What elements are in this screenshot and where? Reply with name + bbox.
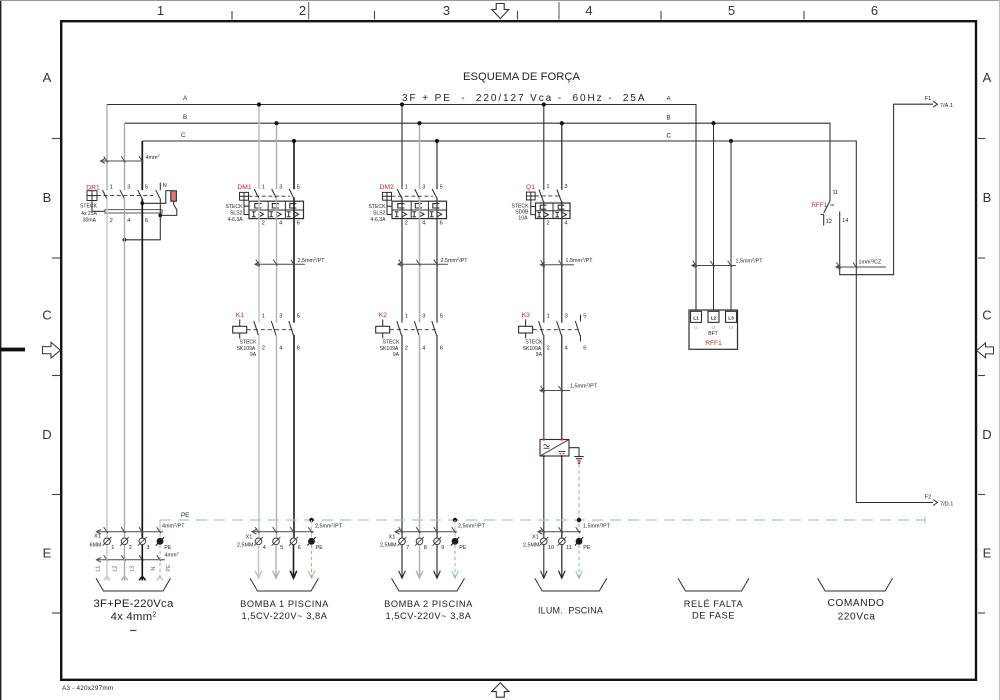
K2 main contact 5-6 bbox=[432, 321, 437, 335]
cable size label 1,5mm<tspan font-size="3.8" dy="-1.8">2</tspan><tspan dy="1.8">/PT</tspan> bbox=[541, 264, 575, 266]
svg-text:6: 6 bbox=[297, 220, 300, 226]
wire DM2 to K2 L1 bbox=[401, 198, 403, 323]
page edge marks bbox=[0, 0, 2, 700]
DM1 trip unit box bbox=[249, 201, 304, 218]
svg-text:10: 10 bbox=[548, 545, 554, 551]
svg-text:SD0B: SD0B bbox=[515, 210, 529, 216]
DM1 thermal element symbol bbox=[255, 204, 262, 208]
svg-text:SK109A: SK109A bbox=[523, 346, 542, 352]
row tick marks right bbox=[978, 138, 985, 140]
lighting transformer T1 bbox=[540, 439, 584, 465]
svg-text:6: 6 bbox=[583, 346, 586, 352]
Q1 pole contact 3-4 bbox=[557, 190, 562, 202]
svg-text:3: 3 bbox=[127, 185, 130, 191]
K2 main contact 3-4 bbox=[414, 321, 419, 335]
wire bus C tap to RFF1 L3 bbox=[730, 141, 732, 310]
svg-text:Q1: Q1 bbox=[526, 184, 535, 191]
svg-text:5: 5 bbox=[440, 313, 443, 319]
wire PE from ground to X1 bbox=[578, 464, 580, 538]
svg-text:L2: L2 bbox=[711, 315, 717, 321]
T1 earth branch wire bbox=[569, 448, 579, 457]
DM1 operator box bbox=[240, 192, 249, 200]
svg-text:X1: X1 bbox=[246, 535, 253, 541]
svg-text:4x 4mm2: 4x 4mm2 bbox=[111, 611, 157, 623]
DM2 magnetic element symbol I> bbox=[412, 211, 416, 213]
svg-text:2: 2 bbox=[547, 346, 550, 352]
wire K1 to X1 L3 bbox=[293, 335, 295, 538]
DM1 magnetic element symbol I> bbox=[252, 211, 256, 213]
svg-text:K3: K3 bbox=[522, 312, 531, 319]
svg-text:L1: L1 bbox=[96, 566, 102, 572]
DM2 operator box bbox=[383, 192, 392, 200]
svg-text:2: 2 bbox=[546, 221, 549, 227]
svg-text:1: 1 bbox=[262, 313, 265, 319]
centre fold arrow left bbox=[43, 342, 61, 358]
svg-text:RELÉ FALTA: RELÉ FALTA bbox=[684, 599, 744, 609]
svg-text:PE: PE bbox=[166, 564, 172, 571]
svg-text:PE: PE bbox=[181, 512, 189, 519]
DM2 operator bracket bbox=[387, 200, 392, 206]
svg-text:30mA: 30mA bbox=[83, 218, 97, 224]
PE protective earth bus dashed green bbox=[160, 519, 925, 521]
svg-text:10A: 10A bbox=[518, 216, 528, 222]
contact terminal 14 wire bbox=[840, 104, 933, 275]
feeder cable bracket bbox=[96, 578, 171, 591]
svg-text:12: 12 bbox=[826, 219, 832, 225]
junction dots bus A bbox=[257, 102, 261, 106]
terminal X1:6 bbox=[290, 538, 297, 545]
cable size label 2,5mm<tspan font-size="3.8" dy="-1.8">2</tspan><tspan dy="1.8">/PT</tspan> bbox=[398, 263, 448, 265]
svg-text:3: 3 bbox=[422, 313, 425, 319]
wire K2 to X1 L1 bbox=[401, 335, 403, 538]
svg-text:1,5mm2/PT: 1,5mm2/PT bbox=[736, 258, 764, 265]
K1 coil bbox=[239, 320, 241, 327]
wire bus B drop to DM2 bbox=[419, 123, 421, 189]
terminal X1:5 bbox=[273, 538, 280, 545]
junction dots bus C bbox=[292, 139, 296, 143]
K1 main contact 3-4 bbox=[271, 321, 276, 335]
wire DM1 to K1 L2 bbox=[276, 198, 278, 323]
PE drop to bomba 2 X1 bbox=[453, 518, 457, 522]
contact blade bbox=[824, 201, 830, 213]
centre fold arrow right bbox=[977, 343, 994, 358]
svg-text:SLS2: SLS2 bbox=[230, 210, 243, 216]
bomba 1 cable bracket bbox=[250, 578, 319, 591]
wire DM2 to K2 L3 bbox=[436, 198, 438, 323]
K1 main contact 1-2 bbox=[254, 321, 259, 335]
K3 main contact 1-2 bbox=[539, 321, 544, 335]
svg-text:N: N bbox=[163, 183, 167, 189]
DM2 magnetic element symbol I> bbox=[430, 211, 434, 213]
DM1 thermal element symbol bbox=[290, 204, 297, 208]
cable size label 1mm<tspan font-size="3.8" dy="-1.8">2</tspan><tspan dy="1.8">/CZ</tspan> bbox=[836, 266, 886, 268]
svg-text:D: D bbox=[982, 427, 991, 442]
wire transformer to X1 11 bbox=[561, 456, 563, 538]
T1 red terminal marks bbox=[543, 439, 545, 441]
wire bus C drop to DM2 bbox=[436, 141, 438, 189]
DM2 pole contact 5-6 bbox=[432, 189, 437, 198]
svg-text:PE: PE bbox=[583, 545, 591, 551]
arrow F2 to 7/D.1 bbox=[933, 500, 938, 506]
bus B drop to DR1 pole 3 bbox=[124, 123, 126, 190]
wire Q1 to K3 phase A bbox=[543, 202, 545, 323]
RFF1 terminal L2 bbox=[708, 311, 719, 322]
iluminacao cable bracket bbox=[535, 578, 607, 591]
svg-text:7/A.1: 7/A.1 bbox=[940, 103, 953, 109]
bus C wire bbox=[142, 141, 933, 503]
terminal X1:8 bbox=[416, 538, 423, 545]
cable size label 1,5mm<tspan font-size="3.8" dy="-1.8">2</tspan><tspan dy="1.8">/PT</tspan> bbox=[692, 265, 736, 267]
centre mark bar left bbox=[0, 348, 25, 352]
svg-text:9A: 9A bbox=[393, 352, 400, 358]
svg-text:4: 4 bbox=[585, 3, 592, 18]
centre fold arrow bottom bbox=[492, 683, 509, 697]
wire bus A drop to DM2 bbox=[401, 105, 403, 190]
svg-text:ILUM. PSCINA: ILUM. PSCINA bbox=[538, 606, 603, 616]
svg-text:6: 6 bbox=[871, 3, 878, 18]
svg-text:4x 25A: 4x 25A bbox=[81, 211, 97, 217]
contact terminal 12 bbox=[823, 215, 825, 226]
bus A wire bbox=[107, 105, 696, 311]
DM1 dashed linkage bbox=[249, 195, 291, 197]
svg-text:3: 3 bbox=[564, 184, 567, 190]
svg-text:9A: 9A bbox=[536, 352, 543, 358]
svg-text:BOMBA 2 PISCINA: BOMBA 2 PISCINA bbox=[384, 599, 473, 609]
arrow F1 to 7/A.1 bbox=[933, 101, 938, 107]
svg-text:2: 2 bbox=[262, 346, 265, 352]
svg-text:B: B bbox=[183, 114, 187, 121]
svg-text:A3 - 420x297mm: A3 - 420x297mm bbox=[62, 685, 113, 692]
DM2 magnetic element symbol I> bbox=[395, 211, 399, 213]
svg-text:SLS2: SLS2 bbox=[373, 210, 386, 216]
Q1 magnetic element symbol I> bbox=[555, 211, 559, 213]
T1 DC symbol bbox=[559, 451, 566, 453]
svg-text:1: 1 bbox=[547, 313, 550, 319]
K1 main contact 5-6 bbox=[289, 321, 294, 335]
svg-text:X1: X1 bbox=[94, 534, 101, 540]
DM2 pole contact 1-2 bbox=[397, 189, 402, 198]
svg-text:2: 2 bbox=[110, 218, 113, 224]
svg-text:4-6,3A: 4-6,3A bbox=[227, 217, 243, 223]
Q1 operator bracket bbox=[531, 200, 536, 207]
contactor K2 bbox=[376, 312, 443, 358]
svg-text:3F+PE-220Vca: 3F+PE-220Vca bbox=[94, 598, 174, 610]
svg-text:BFT: BFT bbox=[708, 331, 717, 337]
svg-text:STECK: STECK bbox=[512, 203, 530, 209]
svg-text:2: 2 bbox=[405, 220, 408, 226]
svg-text:5: 5 bbox=[728, 3, 735, 18]
wire DM1 to K1 L3 bbox=[293, 198, 295, 323]
DM2 pole contact 3-4 bbox=[415, 189, 420, 198]
DM1 magnetic element symbol I> bbox=[287, 211, 291, 213]
svg-text:5: 5 bbox=[297, 185, 300, 191]
wire Q1 to K3 phase B bbox=[561, 202, 563, 323]
K3 spare contact 5-6 bbox=[580, 315, 582, 322]
terminal X1:11 bbox=[559, 538, 566, 545]
svg-text:C: C bbox=[42, 308, 51, 323]
svg-text:2: 2 bbox=[405, 346, 408, 352]
svg-text:1: 1 bbox=[262, 185, 265, 191]
circuit breaker Q1 bbox=[512, 184, 570, 227]
svg-text:C: C bbox=[982, 308, 991, 323]
svg-text:2: 2 bbox=[262, 220, 265, 226]
cable size label 2,5mm<tspan font-size="3.8" dy="-1.8">2</tspan><tspan dy="1.8">/PT</tspan> bbox=[255, 263, 305, 265]
svg-text:2,5mm2/PT: 2,5mm2/PT bbox=[441, 257, 469, 264]
svg-text:5: 5 bbox=[297, 313, 300, 319]
bomba 1 cable conductors with arrows bbox=[258, 545, 260, 578]
svg-text:2,5mm2/PT: 2,5mm2/PT bbox=[315, 523, 343, 530]
svg-text:2,5MM: 2,5MM bbox=[237, 543, 254, 549]
svg-text:L3: L3 bbox=[729, 326, 733, 330]
svg-text:L3: L3 bbox=[728, 315, 734, 321]
svg-text:1: 1 bbox=[110, 185, 113, 191]
cable size label 4mm<tspan font-size="3.8" dy="-1.8">2</tspan><tspan dy="1.8">/PT</tspan> bbox=[97, 531, 164, 533]
svg-text:11: 11 bbox=[566, 545, 572, 551]
DR1 test circuit tap bbox=[140, 201, 144, 205]
svg-text:F1: F1 bbox=[925, 96, 932, 102]
wire K2 to X1 L3 bbox=[436, 335, 438, 538]
phase failure relay RFF1 bbox=[689, 310, 738, 349]
svg-text:DM2: DM2 bbox=[380, 184, 395, 191]
terminal X1:4 bbox=[255, 538, 262, 545]
comando bracket bbox=[818, 578, 893, 591]
wire bus B drop to DM1 bbox=[276, 123, 278, 189]
svg-text:B: B bbox=[43, 190, 52, 205]
RFF1 auxiliary changeover contact bbox=[811, 104, 933, 275]
svg-text:DE FASE: DE FASE bbox=[692, 611, 735, 621]
rele falta de fase bracket bbox=[678, 578, 749, 591]
PE drop to bomba 1 X1 bbox=[309, 518, 313, 522]
terminal X1:PE bbox=[308, 538, 315, 545]
wire K2 to X1 L2 bbox=[419, 335, 421, 538]
feeder cable conductors with arrows bbox=[106, 545, 108, 581]
svg-text:4mm2/PT: 4mm2/PT bbox=[162, 523, 185, 530]
cable size label 2,5mm<tspan font-size="3.8" dy="-1.8">2</tspan><tspan dy="1.8">/PT</tspan> bbox=[395, 531, 457, 533]
cable size label 1,5mm<tspan font-size="3.8" dy="-1.8">2</tspan><tspan dy="1.8">/PT</tspan> bbox=[540, 390, 570, 392]
svg-text:1: 1 bbox=[111, 545, 114, 551]
svg-text:5: 5 bbox=[583, 313, 586, 319]
bus C drop to DR1 pole 5 bbox=[141, 141, 143, 190]
K2 coil bbox=[382, 320, 384, 327]
svg-text:X1: X1 bbox=[532, 535, 539, 541]
DM2 thermal element symbol bbox=[415, 204, 422, 208]
svg-text:ESQUEMA DE FORÇA: ESQUEMA DE FORÇA bbox=[463, 71, 581, 83]
svg-text:A: A bbox=[983, 70, 992, 85]
svg-text:C: C bbox=[667, 133, 672, 140]
cable size label 4mm<tspan font-size="3.8" dy="-1.8">2</tspan> bbox=[97, 559, 166, 561]
DM2 dashed linkage bbox=[392, 195, 434, 197]
DM2 thermal element symbol bbox=[398, 204, 405, 208]
svg-text:1,5CV-220V~ 3,8A: 1,5CV-220V~ 3,8A bbox=[385, 611, 471, 621]
K2 dashed linkage bbox=[390, 329, 436, 331]
Q1 thermal element symbol bbox=[558, 205, 564, 209]
K1 dashed linkage bbox=[247, 329, 293, 331]
svg-text:8: 8 bbox=[424, 545, 427, 551]
DR1 test button bbox=[171, 191, 177, 201]
svg-text:220Vca: 220Vca bbox=[838, 612, 876, 623]
svg-text:6MM: 6MM bbox=[90, 543, 102, 549]
Q1 dashed linkage bbox=[535, 195, 559, 197]
Q1 thermal element symbol bbox=[540, 205, 546, 209]
terminal X1:3 bbox=[139, 538, 146, 545]
DR1 mechanical link dashed bbox=[97, 195, 153, 197]
svg-text:3: 3 bbox=[279, 185, 282, 191]
svg-text:6: 6 bbox=[297, 346, 300, 352]
iluminacao cable conductors with arrows bbox=[543, 545, 545, 578]
contactor K3 bbox=[519, 312, 587, 358]
svg-text:5: 5 bbox=[145, 185, 148, 191]
svg-text:E: E bbox=[43, 546, 52, 561]
svg-text:2: 2 bbox=[299, 3, 306, 18]
wire bus B drop to Q1 bbox=[561, 123, 563, 190]
terminal X1:7 bbox=[399, 538, 406, 545]
svg-text:5: 5 bbox=[280, 545, 283, 551]
svg-text:9: 9 bbox=[441, 545, 444, 551]
motor protection breaker DM2 bbox=[369, 184, 447, 226]
svg-text:B: B bbox=[667, 114, 671, 121]
svg-text:1,5mm2/PT: 1,5mm2/PT bbox=[566, 257, 594, 264]
wire K1 to X1 L2 bbox=[276, 335, 278, 538]
svg-text:3: 3 bbox=[565, 313, 568, 319]
svg-text:L1: L1 bbox=[694, 326, 698, 330]
cable size label 1,5mm<tspan font-size="3.8" dy="-1.8">2</tspan><tspan dy="1.8">/PT</tspan> bbox=[538, 531, 581, 533]
svg-text:14: 14 bbox=[842, 218, 848, 224]
svg-text:6: 6 bbox=[440, 346, 443, 352]
svg-text:3: 3 bbox=[443, 3, 450, 18]
svg-text:2,5MM: 2,5MM bbox=[380, 543, 397, 549]
DR1 operator box bbox=[87, 191, 97, 201]
svg-text:X1: X1 bbox=[389, 535, 396, 541]
cable size label 2,5mm<tspan font-size="3.8" dy="-1.8">2</tspan><tspan dy="1.8">/PT</tspan> bbox=[252, 531, 314, 533]
svg-text:PE: PE bbox=[316, 545, 324, 551]
RCD circuit breaker DR1 bbox=[80, 183, 177, 242]
DR1 trip linkage bar bbox=[91, 201, 93, 212]
svg-text:RFF1: RFF1 bbox=[705, 340, 722, 347]
svg-text:6: 6 bbox=[298, 545, 301, 551]
motor protection breaker DM1 bbox=[226, 184, 304, 226]
row tick marks left bbox=[52, 138, 60, 140]
svg-text:3: 3 bbox=[279, 313, 282, 319]
svg-text:1: 1 bbox=[546, 184, 549, 190]
Q1 magnetic element symbol I> bbox=[537, 211, 541, 213]
svg-text:9A: 9A bbox=[250, 352, 257, 358]
svg-text:1: 1 bbox=[405, 185, 408, 191]
wire bus C drop to DM1 bbox=[293, 141, 295, 189]
svg-text:5: 5 bbox=[440, 185, 443, 191]
centre fold arrow top bbox=[492, 4, 509, 19]
terminal X1:2 bbox=[121, 538, 128, 545]
RFF1 terminal L1 bbox=[691, 311, 702, 322]
svg-text:C: C bbox=[181, 132, 186, 139]
RFF1 terminal L3 bbox=[726, 311, 737, 322]
svg-text:L3: L3 bbox=[130, 566, 136, 572]
svg-text:STECK: STECK bbox=[80, 204, 98, 210]
svg-text:STECK: STECK bbox=[383, 340, 401, 346]
svg-text:3: 3 bbox=[147, 545, 150, 551]
wire feeder L2 bbox=[124, 199, 126, 538]
svg-text:K2: K2 bbox=[379, 312, 388, 319]
svg-text:RFF1: RFF1 bbox=[811, 202, 827, 209]
DM1 pole contact 5-6 bbox=[289, 189, 294, 198]
Q1 trip unit box bbox=[536, 203, 571, 219]
svg-text:2,5MM: 2,5MM bbox=[523, 543, 540, 549]
wire K3 to transformer B bbox=[561, 335, 563, 440]
svg-text:1mm2/CZ: 1mm2/CZ bbox=[859, 259, 883, 266]
svg-text:1: 1 bbox=[157, 3, 164, 18]
svg-text:STECK: STECK bbox=[226, 204, 244, 210]
svg-text:K1: K1 bbox=[236, 312, 245, 319]
bomba 2 cable bracket bbox=[392, 578, 465, 591]
DM1 magnetic element symbol I> bbox=[269, 211, 273, 213]
svg-text:STECK: STECK bbox=[525, 340, 543, 346]
svg-text:DM1: DM1 bbox=[237, 184, 252, 191]
junction dots bus B bbox=[274, 121, 278, 125]
K3 main contact 3-4 bbox=[557, 321, 562, 335]
svg-text:N: N bbox=[151, 567, 157, 571]
terminal X1:9 bbox=[434, 538, 441, 545]
K3 dashed linkage bbox=[533, 329, 579, 331]
svg-text:3: 3 bbox=[422, 185, 425, 191]
wire DM2 to K2 L2 bbox=[419, 198, 421, 323]
svg-text:6: 6 bbox=[440, 220, 443, 226]
svg-text:STECK: STECK bbox=[240, 340, 258, 346]
wire DM1 to K1 L1 bbox=[258, 198, 260, 323]
K3 coil bbox=[525, 320, 527, 327]
svg-text:A: A bbox=[43, 70, 52, 85]
DM1 pole contact 3-4 bbox=[272, 189, 277, 198]
wire bus A drop to Q1 bbox=[543, 105, 545, 190]
svg-text:L1: L1 bbox=[693, 315, 699, 321]
wire K1 to X1 L1 bbox=[258, 335, 260, 538]
bus A drop to DR1 pole 1 bbox=[106, 105, 108, 191]
svg-text:7/D.1: 7/D.1 bbox=[940, 501, 953, 507]
wire feeder L3 bbox=[141, 199, 143, 538]
DM1 thermal element symbol bbox=[272, 204, 279, 208]
wire bus A drop to DM1 bbox=[258, 105, 260, 190]
svg-text:B: B bbox=[983, 190, 992, 205]
svg-text:2: 2 bbox=[129, 545, 132, 551]
wire feeder L1 bbox=[106, 199, 108, 538]
svg-text:1,5mm2/PT: 1,5mm2/PT bbox=[570, 383, 598, 390]
DR1 pole contacts 1-2 3-4 5-6 N bbox=[102, 190, 106, 199]
ruler tick marks bbox=[231, 11, 233, 20]
T1 AC symbol bbox=[544, 444, 550, 446]
wire K3 to transformer A bbox=[543, 335, 545, 440]
terminal X1:1 bbox=[104, 538, 111, 545]
svg-text:6: 6 bbox=[145, 218, 148, 224]
DM1 pole contact 1-2 bbox=[254, 189, 259, 198]
PE junction at ilum bbox=[577, 518, 581, 522]
svg-text:D: D bbox=[42, 427, 51, 442]
bus B wire bbox=[125, 123, 831, 201]
cable size label 4mm<tspan font-size="3.8" dy="-1.8">2</tspan> bbox=[101, 160, 144, 162]
svg-text:COMANDO: COMANDO bbox=[827, 598, 884, 609]
svg-text:PE: PE bbox=[459, 545, 467, 551]
PE drop to feeder X1 bbox=[159, 520, 161, 538]
K2 main contact 1-2 bbox=[397, 321, 402, 335]
bomba 2 cable conductors with arrows bbox=[401, 545, 403, 578]
terminal X1:PE bbox=[157, 538, 164, 545]
fold marks bbox=[308, 2, 310, 20]
contactor K1 bbox=[233, 312, 300, 358]
svg-text:STECK: STECK bbox=[369, 204, 387, 210]
terminal X1:PE bbox=[576, 538, 583, 545]
svg-text:7: 7 bbox=[406, 545, 409, 551]
svg-text:4-6,3A: 4-6,3A bbox=[370, 217, 386, 223]
svg-text:PE: PE bbox=[164, 545, 172, 551]
svg-text:4: 4 bbox=[263, 545, 266, 551]
svg-text:BOMBA 1 PISCINA: BOMBA 1 PISCINA bbox=[240, 599, 329, 609]
